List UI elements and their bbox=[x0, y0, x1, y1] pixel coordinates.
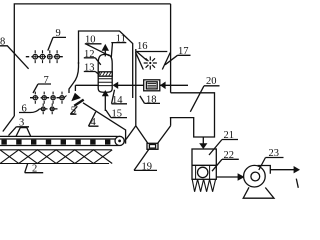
truss zigzag A bbox=[0, 150, 112, 164]
label 19 bbox=[142, 161, 153, 172]
liquid pipe left of vessel bbox=[75, 85, 98, 91]
label 21 bbox=[224, 130, 235, 141]
nozzle circles row 6 bbox=[41, 107, 54, 111]
nozzle ticks row 9 bbox=[35, 50, 57, 63]
label 14 bbox=[112, 95, 123, 106]
label 9 bbox=[56, 28, 61, 39]
label 16 bbox=[137, 41, 148, 52]
spray row 7 header bbox=[30, 97, 67, 99]
label 2 bbox=[32, 164, 37, 175]
nozzle ticks row 6 bbox=[43, 104, 52, 115]
chute diagonal 4 bbox=[83, 103, 126, 144]
pipe from enclosure wall to spray header 7 bbox=[69, 62, 79, 93]
spray nozzle asterisk bbox=[144, 56, 157, 69]
label 6 bbox=[22, 103, 27, 114]
label 4 bbox=[91, 117, 97, 128]
label 23 bbox=[269, 148, 280, 159]
nozzle ticks row 7 bbox=[35, 92, 62, 104]
zigzag under baghouse bbox=[192, 179, 215, 192]
label 15 bbox=[112, 108, 123, 119]
truss bottom chord bbox=[0, 163, 109, 165]
stack stub bbox=[296, 179, 298, 188]
label 11 bbox=[116, 33, 126, 44]
arrow into demister bbox=[160, 82, 166, 90]
scrubber enclosure box bbox=[79, 31, 133, 98]
nozzle circles row 7 bbox=[33, 96, 64, 100]
rotary feeder 22 bbox=[196, 165, 210, 179]
label 7 bbox=[44, 75, 49, 86]
label 5 bbox=[71, 106, 76, 117]
svg-text:16: 16 bbox=[137, 41, 148, 52]
label 18 bbox=[146, 94, 157, 105]
conveyor belt 3 bbox=[0, 136, 116, 145]
spray row 6 header bbox=[40, 108, 59, 110]
tray lines bbox=[98, 79, 112, 86]
spray chamber left wall bbox=[135, 49, 137, 126]
label 20 bbox=[206, 76, 217, 87]
label 3 bbox=[19, 117, 24, 128]
nozzle circles row 9 bbox=[33, 54, 59, 59]
fan 23 volute bbox=[244, 165, 266, 187]
discharge valve 19 bbox=[147, 143, 158, 149]
funnel skirt bbox=[126, 126, 136, 140]
pipe 14 into vessel right bbox=[118, 84, 188, 86]
belt cleats bbox=[1, 140, 110, 145]
truss zigzag B bbox=[0, 150, 112, 164]
fan base bbox=[243, 187, 274, 198]
label 8 bbox=[0, 37, 5, 48]
right deflector bbox=[162, 53, 170, 70]
label 22 bbox=[224, 150, 235, 161]
spray chamber right wall (from hood top) bbox=[170, 4, 172, 126]
label 12 bbox=[84, 49, 95, 60]
label 17 bbox=[178, 46, 189, 57]
deflector plate 5 bbox=[74, 100, 83, 106]
arrow into baghouse bbox=[202, 137, 204, 144]
baghouse box 21 bbox=[192, 149, 216, 179]
scrubber vessel U12 shell bbox=[98, 54, 112, 92]
spray header line 16 bbox=[136, 51, 167, 53]
gas outlet arrow at vessel top bbox=[104, 51, 106, 57]
label 13 bbox=[84, 63, 95, 74]
drain arrow to conveyor bbox=[71, 93, 81, 102]
pipe to fan bbox=[216, 176, 238, 178]
demister box 18 bbox=[144, 80, 160, 91]
belt pulley bbox=[115, 136, 124, 145]
spray row 9 header bbox=[26, 56, 64, 58]
chamber funnel bbox=[136, 126, 171, 144]
truss frame 2 top chord bbox=[0, 149, 112, 151]
packing band 13 bbox=[98, 72, 112, 76]
label 10 bbox=[85, 35, 96, 46]
duct to baghouse bbox=[170, 93, 215, 137]
pipe 15 into vessel bottom bbox=[104, 96, 106, 111]
left deflector bbox=[136, 52, 144, 69]
hood enclosure top line bbox=[14, 4, 170, 116]
material pile on belt bbox=[16, 128, 31, 137]
fan outlet arrow bbox=[270, 169, 294, 171]
hood skirt left bbox=[3, 116, 15, 132]
